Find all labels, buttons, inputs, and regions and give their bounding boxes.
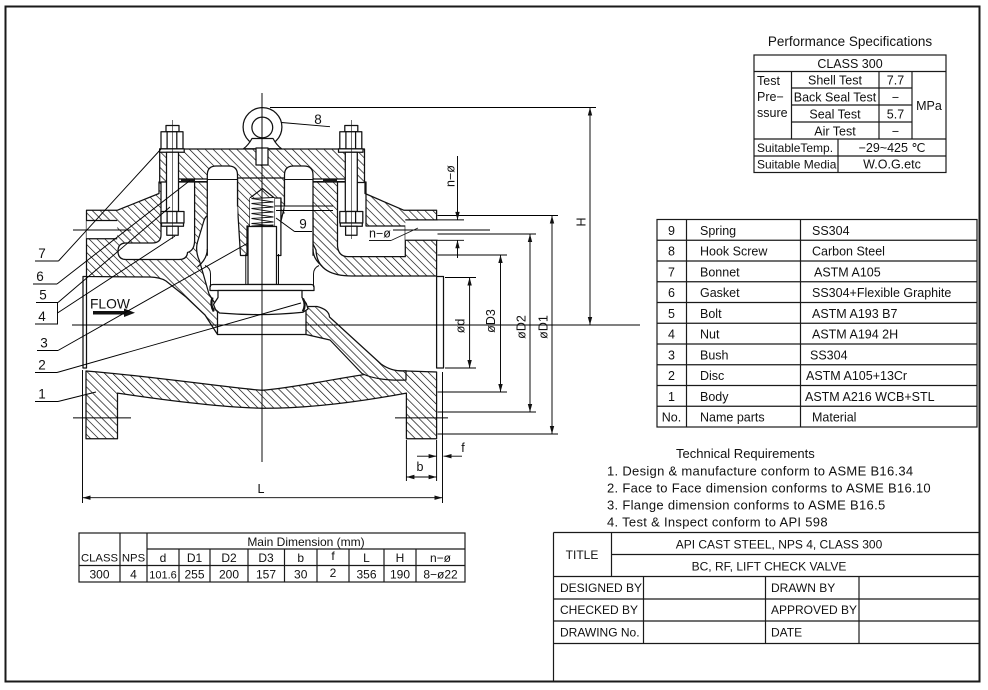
stem guide bore clearance lines xyxy=(245,254,247,285)
phi-D3 dim xyxy=(438,254,508,256)
svg-text:Bonnet: Bonnet xyxy=(700,266,740,280)
inlet flange bolt hole band xyxy=(87,221,118,239)
svg-text:Nut: Nut xyxy=(700,328,720,342)
svg-text:190: 190 xyxy=(390,568,410,582)
svg-text:L: L xyxy=(363,551,370,565)
svg-text:Disc: Disc xyxy=(700,369,724,383)
spring pocket xyxy=(250,198,274,226)
svg-text:−29~425 ℃: −29~425 ℃ xyxy=(859,141,926,155)
svg-text:6: 6 xyxy=(36,269,44,284)
gasket joint line seen through arch openings xyxy=(207,179,237,181)
svg-text:CLASS: CLASS xyxy=(81,553,119,565)
hook screw / eyebolt ring xyxy=(243,108,282,147)
svg-text:255: 255 xyxy=(184,568,204,582)
svg-text:4: 4 xyxy=(130,568,137,582)
svg-text:6: 6 xyxy=(668,286,675,300)
seat right + outlet arm diagonal xyxy=(306,307,406,381)
svg-text:Body: Body xyxy=(700,390,729,404)
svg-text:Pre−: Pre− xyxy=(757,90,784,104)
svg-text:Main Dimension (mm): Main Dimension (mm) xyxy=(247,535,364,549)
svg-text:No.: No. xyxy=(662,411,681,425)
bolt hole tick left top xyxy=(73,229,131,231)
bush: right cage wall (white) xyxy=(274,198,281,256)
phi-d dim xyxy=(445,277,476,279)
svg-text:CLASS 300: CLASS 300 xyxy=(817,57,882,71)
svg-text:5: 5 xyxy=(668,307,675,321)
L dim xyxy=(82,370,84,503)
svg-text:Test: Test xyxy=(757,74,780,88)
n-phi right dim xyxy=(438,219,465,221)
bonnet arch / chamber lobe left xyxy=(207,166,237,256)
svg-text:Back Seal Test: Back Seal Test xyxy=(794,91,877,105)
svg-text:APPROVED BY: APPROVED BY xyxy=(771,603,857,617)
H dim xyxy=(270,107,596,109)
svg-text:−: − xyxy=(892,125,899,139)
leader 9 spring xyxy=(276,218,295,232)
svg-text:7.7: 7.7 xyxy=(887,74,904,88)
svg-text:4: 4 xyxy=(38,309,46,324)
svg-text:H: H xyxy=(575,217,589,226)
bolt right (stud + hex nuts) xyxy=(339,120,364,239)
svg-text:8: 8 xyxy=(314,112,322,127)
disc seal contact crescent left xyxy=(211,298,213,312)
svg-text:øD2: øD2 xyxy=(515,315,529,339)
body upper-right (right half of top flange + chamber wall + shelf + outlet flange upper) xyxy=(238,182,437,276)
svg-text:BC, RF, LIFT CHECK VALVE: BC, RF, LIFT CHECK VALVE xyxy=(692,560,847,574)
phi-D1 dim xyxy=(438,215,559,217)
svg-text:API CAST STEEL, NPS 4, CL: API CAST STEEL, NPS 4, CLASS 300 xyxy=(676,538,883,552)
svg-text:30: 30 xyxy=(294,568,308,582)
svg-text:4. Test & Inspect conform: 4. Test & Inspect conform to API 598 xyxy=(607,515,828,530)
svg-text:2. Face to Face dimension: 2. Face to Face dimension conforms to AS… xyxy=(607,481,931,496)
svg-text:157: 157 xyxy=(256,568,276,582)
svg-text:SS304: SS304 xyxy=(810,349,848,363)
svg-text:300: 300 xyxy=(89,568,109,582)
body bottom shell + both lower flanges + outlet arm junction xyxy=(86,371,437,439)
bolt hole tick right top xyxy=(393,229,490,231)
disc body xyxy=(214,291,309,315)
svg-text:ASTM A193 B7: ASTM A193 B7 xyxy=(812,307,898,321)
leader 7 bonnet xyxy=(35,260,59,262)
svg-text:9: 9 xyxy=(299,217,307,232)
svg-text:8: 8 xyxy=(668,245,675,259)
bolt hole tick right bottom xyxy=(395,417,448,419)
svg-text:Hook Screw: Hook Screw xyxy=(700,245,768,259)
svg-text:Carbon Steel: Carbon Steel xyxy=(812,245,885,259)
bonnet slab with tabs xyxy=(160,149,365,183)
svg-text:SS304: SS304 xyxy=(812,224,850,238)
svg-text:b: b xyxy=(417,460,424,474)
svg-text:NPS: NPS xyxy=(122,553,146,565)
svg-text:f: f xyxy=(461,441,465,455)
leader 5 bolt xyxy=(36,302,58,304)
leader 6 gasket xyxy=(33,283,57,285)
leader 3 bush xyxy=(37,350,58,352)
svg-text:ød: ød xyxy=(454,319,468,334)
svg-text:øD3: øD3 xyxy=(484,309,498,333)
bolt hole tick left bottom xyxy=(73,417,131,419)
svg-text:5: 5 xyxy=(39,288,47,303)
bonnet arch / chamber lobe right xyxy=(285,166,314,256)
svg-text:DATE: DATE xyxy=(771,626,802,640)
svg-text:Air Test: Air Test xyxy=(814,125,856,139)
disc seal contact crescent right xyxy=(303,299,305,312)
svg-text:ASTM A105+13Cr: ASTM A105+13Cr xyxy=(806,369,907,383)
svg-text:2: 2 xyxy=(38,358,46,373)
centerline vertical xyxy=(261,93,263,462)
svg-text:b: b xyxy=(297,551,304,565)
svg-text:Suitable Media: Suitable Media xyxy=(757,158,837,172)
leader 2 disc xyxy=(35,372,57,374)
svg-text:n−ø: n−ø xyxy=(444,165,458,187)
svg-text:2: 2 xyxy=(330,566,337,580)
disc top flange xyxy=(210,285,314,291)
svg-text:8−ø22: 8−ø22 xyxy=(423,568,458,582)
svg-text:ASTM A194 2H: ASTM A194 2H xyxy=(812,328,898,342)
svg-text:1: 1 xyxy=(668,390,675,404)
svg-text:101.6: 101.6 xyxy=(149,570,177,582)
svg-text:W.O.G.etc: W.O.G.etc xyxy=(863,158,921,172)
svg-text:3. Flange dimension conform: 3. Flange dimension conforms to ASME B16… xyxy=(607,498,886,513)
svg-text:FLOW: FLOW xyxy=(90,297,130,312)
svg-text:L: L xyxy=(258,482,265,496)
gasket section marks (solid) xyxy=(181,178,195,181)
svg-text:9: 9 xyxy=(668,224,675,238)
svg-text:ssure: ssure xyxy=(757,106,788,120)
phi-D2 dim xyxy=(438,233,537,235)
raised face right xyxy=(437,277,444,369)
dimension arrowheads xyxy=(83,108,593,500)
svg-text:−: − xyxy=(892,91,899,105)
svg-text:Bolt: Bolt xyxy=(700,307,722,321)
svg-text:Gasket: Gasket xyxy=(700,286,740,300)
svg-text:ASTM A216 WCB+STL: ASTM A216 WCB+STL xyxy=(805,390,935,404)
outlet flange bolt hole band xyxy=(405,220,437,240)
svg-text:DESIGNED BY: DESIGNED BY xyxy=(560,581,642,595)
svg-text:MPa: MPa xyxy=(916,99,942,113)
svg-text:Name parts: Name parts xyxy=(700,411,765,425)
disc guide rib left xyxy=(205,266,211,288)
svg-text:d: d xyxy=(160,551,167,565)
svg-text:7: 7 xyxy=(668,266,675,280)
svg-text:7: 7 xyxy=(38,246,46,261)
raised face left xyxy=(83,277,87,369)
b dim xyxy=(405,440,407,481)
disc stem xyxy=(248,227,277,285)
svg-text:4: 4 xyxy=(668,328,675,342)
bolt left (stud + hex nuts) xyxy=(160,120,185,239)
svg-text:2: 2 xyxy=(668,369,675,383)
svg-text:1: 1 xyxy=(38,387,46,402)
svg-text:H: H xyxy=(396,551,405,565)
svg-text:Spring: Spring xyxy=(700,224,736,238)
svg-text:356: 356 xyxy=(356,568,376,582)
svg-text:200: 200 xyxy=(219,568,239,582)
svg-text:5.7: 5.7 xyxy=(887,108,904,122)
body upper-left (inlet flange + neck + left half of top flange + seat bridge) xyxy=(87,182,241,335)
svg-text:øD1: øD1 xyxy=(537,315,551,339)
svg-text:DRAWING No.: DRAWING No. xyxy=(560,626,640,640)
disc guide rib right xyxy=(314,266,320,288)
svg-text:Bush: Bush xyxy=(700,349,729,363)
svg-text:CHECKED BY: CHECKED BY xyxy=(560,603,638,617)
svg-text:D3: D3 xyxy=(258,551,274,565)
svg-text:n−ø: n−ø xyxy=(430,551,452,565)
svg-text:n−ø: n−ø xyxy=(369,227,391,241)
left bolt nut recess + air pocket (merged white) xyxy=(118,182,195,260)
bonnet center column with spring-roof gable and left cage wall xyxy=(238,178,285,256)
chamber flare below right arch xyxy=(313,249,322,266)
f dim xyxy=(417,455,437,457)
svg-text:ASTM A105: ASTM A105 xyxy=(814,266,881,280)
svg-text:3: 3 xyxy=(40,336,48,351)
svg-text:Shell Test: Shell Test xyxy=(808,74,862,88)
gasket joint lines between bonnet and body flange xyxy=(160,178,238,180)
svg-text:1. Design & manufacture co: 1. Design & manufacture conform to ASME … xyxy=(607,464,913,479)
leader 4 nut (boxed label) xyxy=(35,303,58,325)
svg-text:Technical Requirements: Technical Requirements xyxy=(676,446,815,461)
svg-text:TITLE: TITLE xyxy=(566,548,599,562)
svg-text:Material: Material xyxy=(812,411,856,425)
svg-text:SS304+Flexible Graphite: SS304+Flexible Graphite xyxy=(812,286,951,300)
spring leader lines to right xyxy=(275,205,333,207)
svg-text:Seal Test: Seal Test xyxy=(809,108,861,122)
spring coils xyxy=(252,198,274,227)
svg-text:3: 3 xyxy=(668,349,675,363)
chamber flare below left arch xyxy=(198,249,208,267)
svg-text:DRAWN BY: DRAWN BY xyxy=(771,581,835,595)
svg-text:Performance Specifications: Performance Specifications xyxy=(768,34,933,49)
svg-text:D1: D1 xyxy=(187,551,203,565)
leader 8 hook screw xyxy=(282,123,331,127)
leader 1 body xyxy=(35,401,58,403)
seat ring bore lower edge xyxy=(218,334,307,336)
svg-text:D2: D2 xyxy=(221,551,237,565)
centerline horizontal xyxy=(72,324,640,326)
dimension labels xyxy=(258,165,589,496)
svg-text:SuitableTemp.: SuitableTemp. xyxy=(757,141,833,155)
